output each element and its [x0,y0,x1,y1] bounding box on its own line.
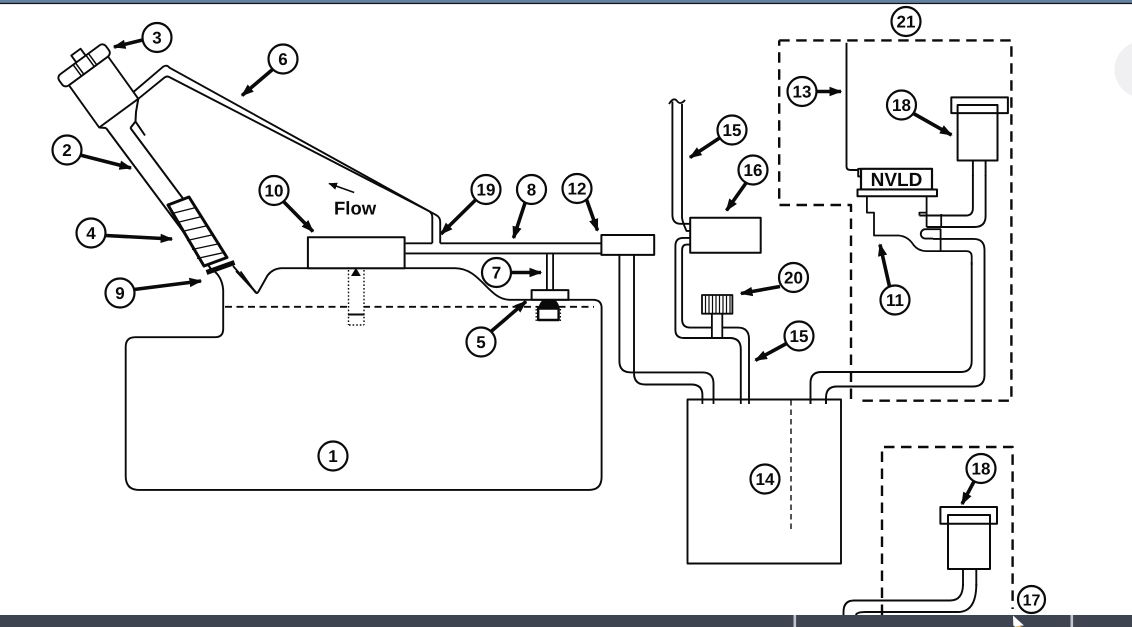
canister inner dashed divider [790,400,792,531]
callout 8 [514,175,547,238]
svg-text:18: 18 [892,96,911,115]
vapor line 8 (tank to fitting 12) [406,242,602,244]
vent hose 6 (filler neck to line) [134,66,440,244]
canister port ticks [702,400,826,405]
wire 13 to NVLD [847,43,859,170]
svg-text:Flow: Flow [334,198,377,219]
callout 3 [114,23,172,52]
svg-text:2: 2 [62,141,71,160]
dashed boundary 21 (on-vehicle NVLD assembly) [779,40,1011,400]
svg-text:6: 6 [278,50,287,69]
svg-text:15: 15 [723,121,742,140]
restrictor band 4 (hatched) [168,197,227,266]
decorative gray circle top-right [1115,41,1132,98]
callout 13 [788,77,842,106]
svg-text:14: 14 [756,470,775,489]
svg-text:16: 16 [744,161,763,180]
callout 18 top [887,91,952,136]
callout 12 [563,174,598,231]
fuel tank 1 outline [126,268,602,490]
callout 7 [482,258,541,287]
vent solenoid 18 (lower, in dashed box 17) [940,507,997,586]
callout 21 [892,7,921,36]
pump module 10 (box on tank) [308,237,405,268]
vent tube 15 (top, to atmosphere) [672,102,690,224]
NVLD label box [858,169,938,196]
callout 20 [741,263,808,294]
callout 17 [1018,586,1045,613]
callout 15 top [690,116,747,158]
svg-text:9: 9 [115,284,124,303]
tube 7 (line to grommet 5) [547,254,553,290]
svg-text:1: 1 [328,447,337,466]
svg-text:3: 3 [152,29,161,48]
top blue toolbar [0,0,1132,3]
callout 5 [467,302,527,357]
filler cap 3 [52,36,139,128]
callout 2 [53,136,132,169]
svg-text:15: 15 [790,327,809,346]
bottom status bar [0,615,1132,627]
tube 15 break symbol at top [669,99,685,104]
svg-text:11: 11 [886,291,904,310]
NVLD tube to solenoid 18 (upper) [919,175,973,216]
svg-text:5: 5 [476,333,485,352]
svg-text:18: 18 [972,460,991,479]
svg-text:17: 17 [1023,593,1041,610]
tube from fitting 12 down to canister [619,255,713,404]
svg-text:4: 4 [86,224,96,243]
svg-text:19: 19 [477,181,496,200]
callout 18 bottom [962,454,996,504]
clamp 9 (dark band at neck base) [207,263,235,273]
callout 6 [242,45,298,96]
svg-text:13: 13 [793,83,812,102]
tube from filter 16 down and right to canister [675,238,740,404]
callout 11 [880,245,910,315]
fuel pickup tube (dotted, inside tank) [348,268,365,325]
tube from lower solenoid 18 to bottom [844,584,964,615]
svg-text:8: 8 [527,181,536,200]
drain cap 20 [702,295,732,337]
fitting 12 [601,235,654,255]
filler neck cone [99,99,138,128]
fuel level dashed line [225,306,594,308]
NVLD valve body 11 [867,196,972,265]
callout 10 [260,176,314,232]
svg-text:21: 21 [897,13,916,32]
NVLD tube to canister (lower) [826,239,985,404]
callout 4 [77,219,173,248]
filter box 16 [690,218,761,253]
callout 1 [319,442,348,471]
vent solenoid 18 (upper, in dashed box) [951,97,1008,176]
callout 16 [727,156,768,211]
svg-text:12: 12 [568,180,587,199]
callout 15 mid [756,322,814,361]
filler neck tube 2 [106,128,211,269]
svg-text:10: 10 [265,182,284,201]
svg-text:20: 20 [784,269,803,288]
callout 9 [106,279,202,308]
grommet 5 on tank top [532,290,569,322]
dashed boundary 17 (service kit box) [882,447,1013,615]
mouse cursor [1013,616,1024,627]
callout 19 [441,175,501,234]
callout 14 [751,465,780,494]
NVLD port stub (pill) [921,229,941,238]
svg-text:NVLD: NVLD [871,170,923,191]
EVAP canister 14 [688,400,842,564]
svg-text:7: 7 [492,264,501,283]
Flow arrow [329,184,354,193]
